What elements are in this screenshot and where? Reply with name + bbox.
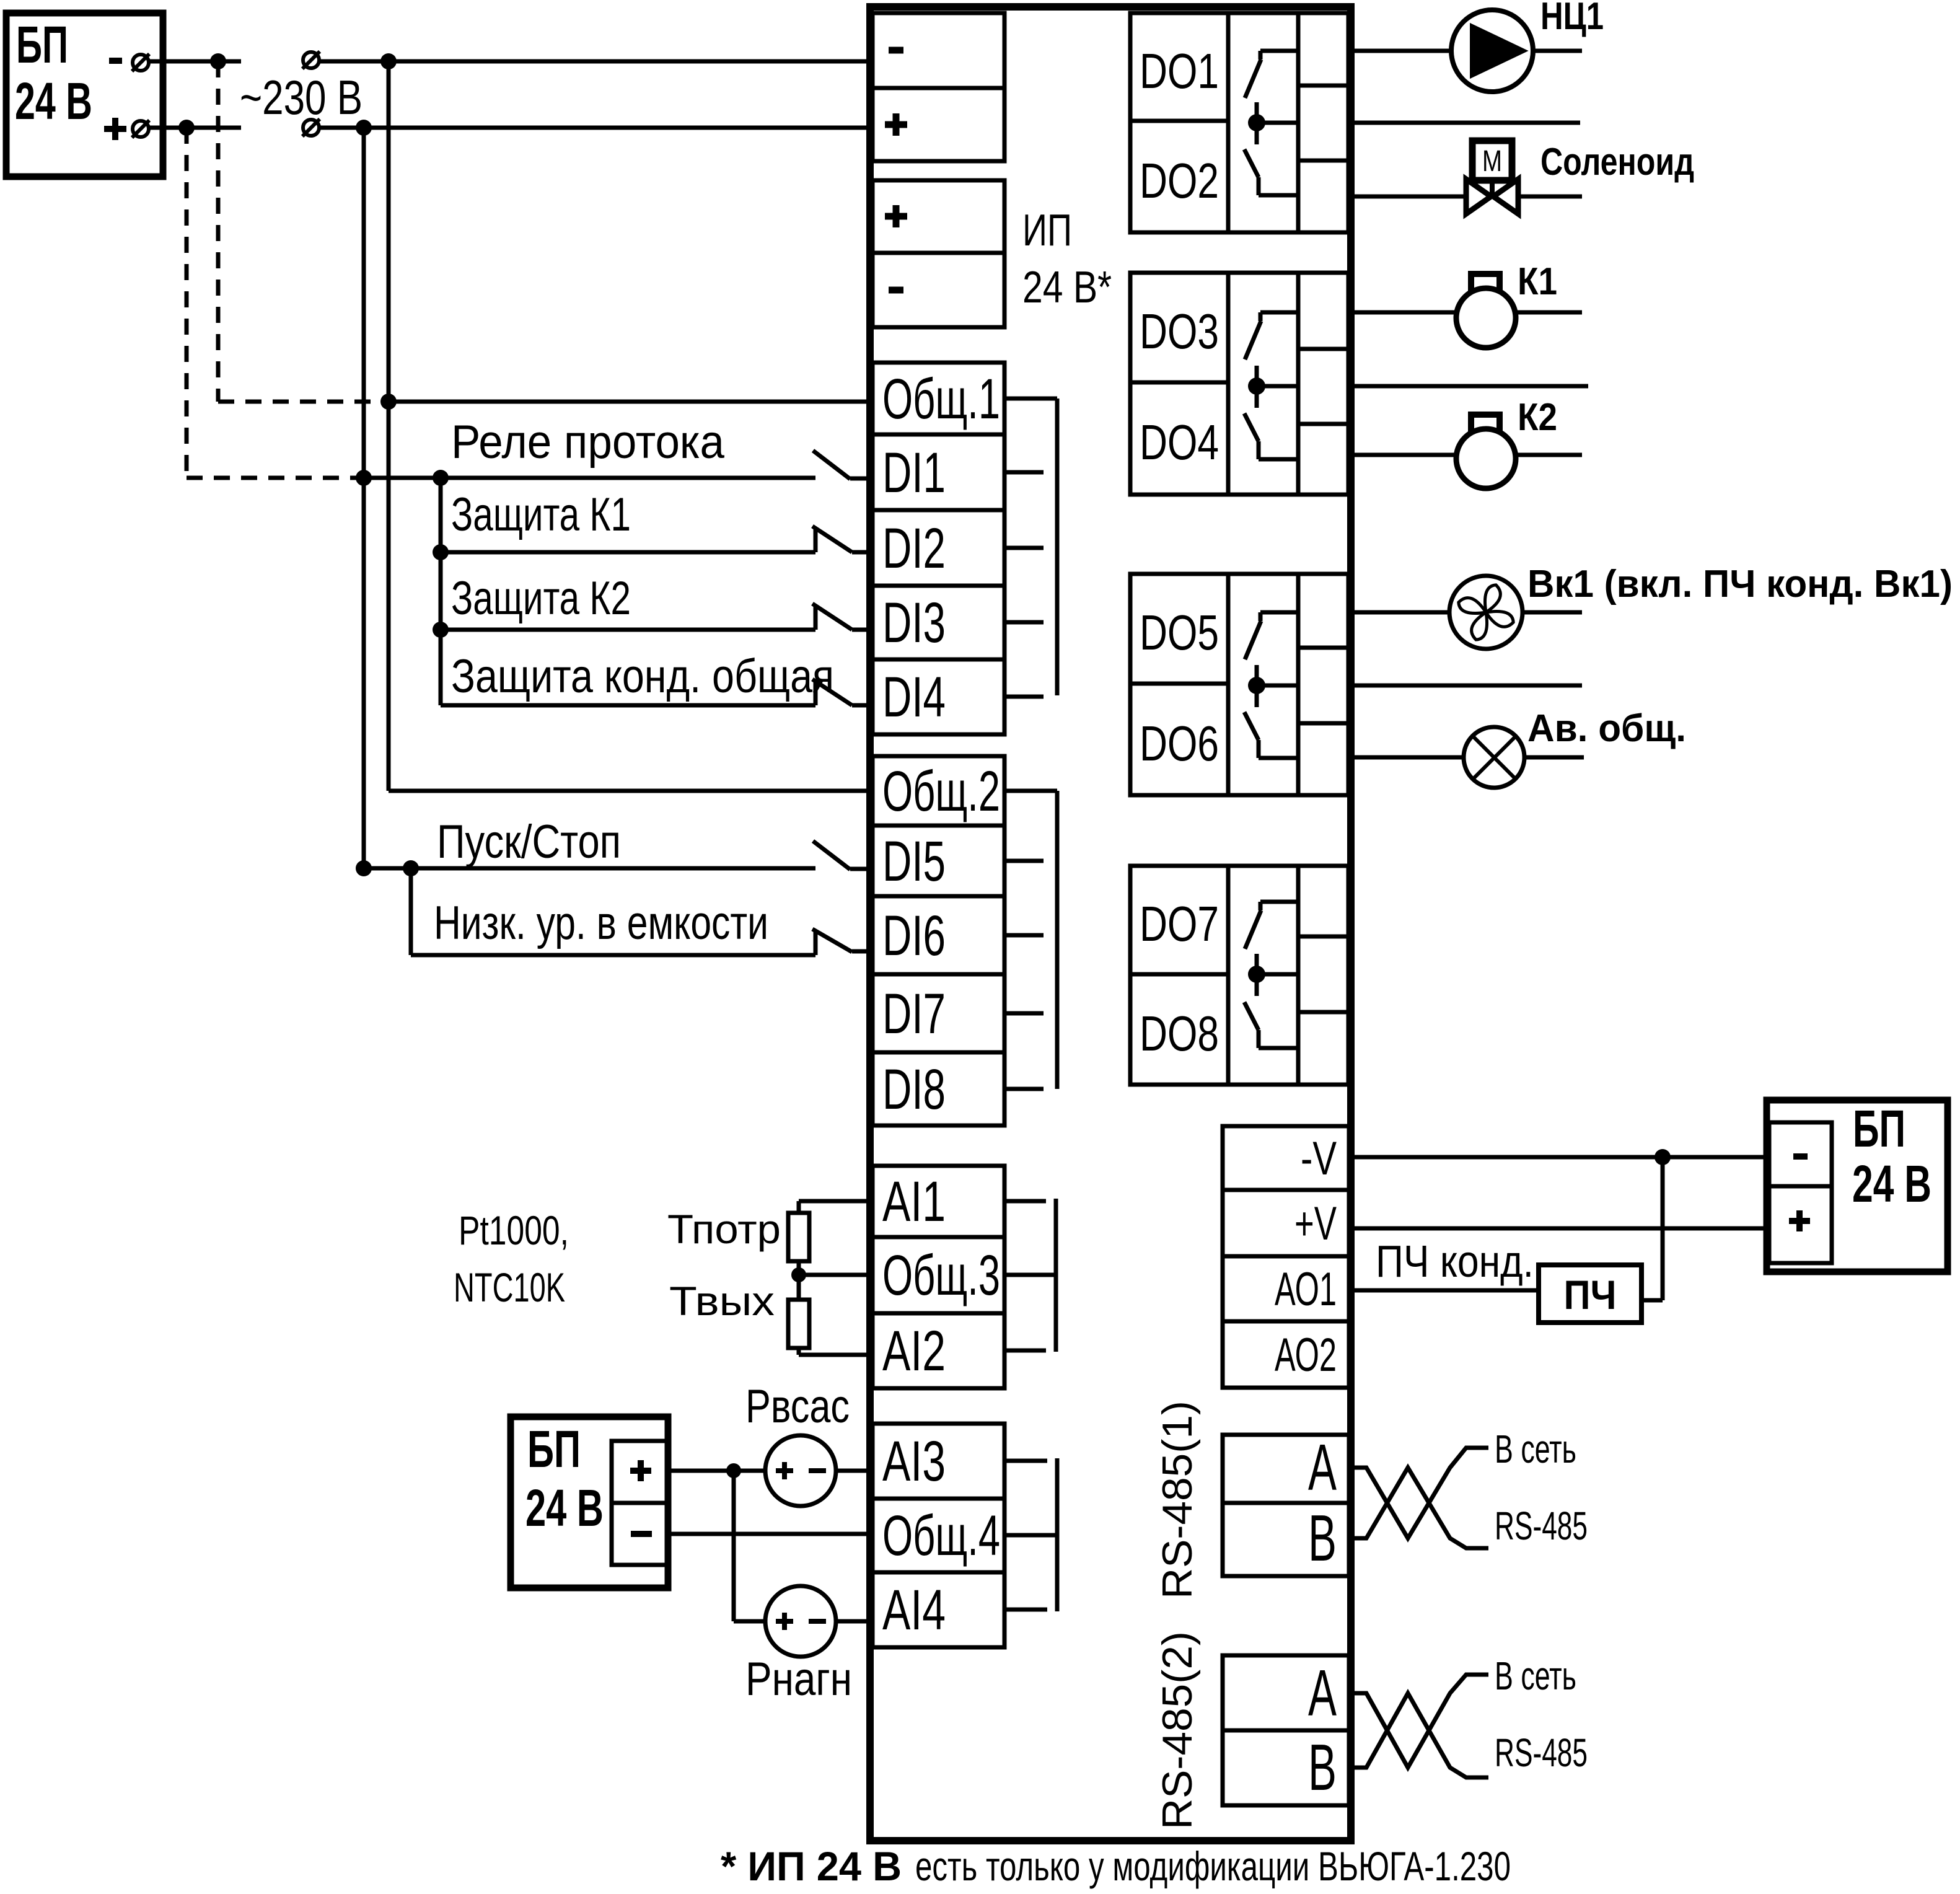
twisted pair RS-485(1) wire B — [1349, 1468, 1488, 1548]
wire branch V4 — [409, 868, 413, 955]
solenoid valve left triangle — [1466, 179, 1491, 214]
svg-text:М: М — [1482, 145, 1502, 178]
svg-text:* ИП 24 В: * ИП 24 В — [721, 1843, 902, 1889]
wire bus V1 — [387, 61, 391, 791]
wire 230V top to junction J3 — [319, 59, 389, 64]
twisted pair RS-485(2) wire A — [1349, 1675, 1488, 1768]
svg-text:NTC10K: NTC10K — [454, 1264, 565, 1310]
wire Общ.4 internal stub — [1004, 1533, 1057, 1538]
svg-text:Защита конд. общая: Защита конд. общая — [451, 650, 834, 703]
terminal screw BP1 plus — [133, 121, 149, 137]
power supply BP3 БП 24 В (bottom-left) — [511, 1417, 668, 1588]
wire to Общ.2 terminal — [389, 789, 870, 793]
terminal DI5 — [872, 826, 1004, 896]
divider -V/+V — [1223, 1188, 1349, 1192]
power supply BP1 БП 24 В (top-left) — [6, 13, 163, 177]
divider DO1/DO2 — [1130, 119, 1228, 123]
node J6 (DI1 tap) — [356, 470, 372, 486]
wire DI1 — [364, 476, 815, 480]
node J3 — [380, 53, 397, 69]
wire BP1 plus to junction — [149, 126, 187, 130]
svg-text:ИП: ИП — [1022, 206, 1072, 255]
svg-text:Пуск/Стоп: Пуск/Стоп — [437, 816, 621, 868]
node J13 (sensor common) — [791, 1267, 806, 1282]
wire S3 to DI3 terminal — [852, 628, 870, 632]
terminal AI1 — [872, 1166, 1004, 1237]
wire -V to БП minus — [1351, 1155, 1769, 1160]
wire AI2 internal stub — [1004, 1349, 1046, 1353]
minus sign in B1 — [809, 1468, 826, 1473]
svg-text:DO2: DO2 — [1140, 153, 1219, 208]
terminal screw BP1 minus — [133, 55, 149, 71]
terminal minus — [872, 13, 1004, 88]
AO terminal group box — [1223, 1126, 1349, 1388]
resistor R2 Твых — [788, 1300, 809, 1348]
svg-text:БП: БП — [16, 15, 68, 74]
wire DI4 internal stub — [1004, 695, 1044, 699]
RS-485(2) terminal box — [1223, 1655, 1349, 1805]
svg-text:Вк1 (вкл. ПЧ конд. Вк1): Вк1 (вкл. ПЧ конд. Вк1) — [1527, 563, 1953, 606]
relay group DO1/DO2 box — [1130, 13, 1348, 232]
svg-text:DO1: DO1 — [1140, 43, 1219, 99]
node J14 (branch to Рнагн) — [726, 1463, 741, 1478]
wire DI6 internal stub — [1004, 933, 1044, 938]
svg-text:В сеть: В сеть — [1495, 1654, 1576, 1698]
lamp HL1 Ав. общ. (circle) — [1464, 727, 1524, 788]
bell H2 К2 (circle) — [1456, 429, 1516, 488]
svg-text:ПЧ: ПЧ — [1564, 1272, 1617, 1318]
svg-text:А: А — [1308, 1657, 1337, 1730]
terminal screw N (~230V bottom) — [303, 120, 319, 136]
svg-text:DI5: DI5 — [882, 830, 946, 893]
wire DO2 to solenoid — [1351, 195, 1466, 199]
svg-text:DI8: DI8 — [882, 1058, 946, 1121]
terminal DI2 — [872, 510, 1004, 586]
contact cell divider 1 — [1298, 646, 1348, 650]
svg-text:Общ.1: Общ.1 — [882, 368, 1000, 431]
svg-text:Ав. общ.: Ав. общ. — [1527, 707, 1686, 750]
contact cell divider 2 — [1298, 1010, 1348, 1015]
minus sign in B2 — [809, 1619, 826, 1624]
svg-text:DI1: DI1 — [882, 441, 946, 504]
contact cell divider 2 — [1298, 422, 1348, 426]
wire DO4 to bell К2 — [1351, 453, 1457, 457]
wire DI8 internal stub — [1004, 1087, 1044, 1091]
node J9 — [433, 544, 449, 560]
wire DI2 internal stub — [1004, 546, 1044, 550]
svg-text:DI3: DI3 — [882, 591, 946, 654]
wire R1 to R2 — [797, 1261, 801, 1300]
svg-text:24 В: 24 В — [15, 72, 92, 130]
terminal Общ.2 — [872, 756, 1004, 826]
switch S4 notch — [814, 682, 818, 705]
svg-text:24 В: 24 В — [525, 1479, 604, 1537]
wire to resistor R1 — [797, 1201, 801, 1213]
frequency drive ПЧ box — [1539, 1265, 1641, 1323]
terminal DI6 — [872, 896, 1004, 974]
wire plus stub end — [187, 126, 241, 130]
dashed wire from plus down — [185, 128, 189, 478]
divider A/B RS-485(2) — [1223, 1729, 1349, 1733]
twisted pair RS-485(1) wire A — [1349, 1448, 1488, 1538]
divider +V/AO1 — [1223, 1254, 1349, 1259]
divider DO3/DO4 — [1130, 381, 1228, 385]
wire branch bus V3 — [439, 478, 443, 705]
svg-text:Твых: Твых — [669, 1278, 775, 1324]
svg-text:AI2: AI2 — [882, 1319, 946, 1383]
svg-text:-V: -V — [1301, 1132, 1337, 1185]
wire bus V2 — [362, 128, 366, 868]
svg-text:DO7: DO7 — [1140, 896, 1219, 951]
node J11 (branch to DI6) — [403, 860, 419, 876]
wire DO3 to bell К1 — [1351, 311, 1457, 315]
terminal ip minus — [872, 253, 1004, 327]
svg-text:AI4: AI4 — [882, 1579, 946, 1642]
wire BP3 minus to Общ.4 — [668, 1532, 870, 1536]
wire BP3 plus to Рвсас — [668, 1469, 765, 1473]
wire to controller terminal plus — [364, 126, 870, 130]
node J10 — [433, 622, 449, 638]
terminal ip plus — [872, 180, 1004, 253]
wire +V to БП plus — [1351, 1227, 1769, 1231]
wire DI6 — [411, 953, 815, 958]
svg-text:Соленоид: Соленоид — [1540, 141, 1694, 183]
lamp HL1 cross 2 — [1473, 736, 1516, 779]
label + (BP2) — [1789, 1218, 1810, 1224]
label + (BP3) — [630, 1468, 651, 1474]
switch S3 blade (Защита К2) — [812, 604, 852, 630]
divider DO7/DO8 — [1130, 972, 1228, 977]
svg-text:DO4: DO4 — [1140, 415, 1219, 470]
divider A/B RS-485(1) — [1223, 1501, 1349, 1505]
terminal Общ.3 — [872, 1237, 1004, 1313]
wire Рнагн to AI4 — [836, 1619, 870, 1624]
svg-text:К2: К2 — [1518, 396, 1557, 439]
wire rail common 2 — [1055, 791, 1060, 1089]
wire S1 to DI1 terminal — [850, 477, 870, 481]
svg-text:Общ.4: Общ.4 — [882, 1504, 1000, 1567]
contact cell divider 2 — [1298, 721, 1348, 726]
svg-text:RS-485(1): RS-485(1) — [1154, 1401, 1201, 1599]
terminal DI3 — [872, 586, 1004, 659]
wire Общ.3 internal stub — [1004, 1273, 1056, 1277]
svg-text:~230 В: ~230 В — [240, 70, 363, 125]
wire AI2 — [799, 1353, 870, 1357]
svg-text:Реле протока: Реле протока — [451, 416, 725, 469]
wire DO3/DO4 common out — [1351, 384, 1588, 389]
wire DI7 internal stub — [1004, 1011, 1044, 1016]
svg-text:DO8: DO8 — [1140, 1006, 1219, 1061]
switch S5 blade (Пуск/Стоп) — [813, 841, 850, 870]
wire to Общ.1 terminal — [389, 400, 870, 404]
svg-text:RS-485: RS-485 — [1495, 1504, 1588, 1548]
wire DI5 — [364, 866, 815, 871]
svg-text:AI3: AI3 — [882, 1430, 946, 1493]
node J2 (plus dashed branch) — [178, 120, 195, 136]
plus sign in B1 — [776, 1468, 793, 1473]
wire DO6 to lamp Ав. общ. — [1351, 755, 1464, 760]
solenoid stem — [1490, 180, 1495, 196]
svg-text:Рвсас: Рвсас — [745, 1380, 850, 1433]
wire DI2 — [441, 550, 815, 555]
pump M1 НЦ1 (circle) — [1451, 10, 1533, 92]
contact cell divider 1 — [1298, 347, 1348, 351]
divider DO5/DO6 — [1130, 682, 1228, 686]
wire to controller terminal minus — [389, 59, 870, 64]
node J7 (DI5 tap) — [356, 860, 372, 876]
node J1 (minus dashed branch) — [210, 53, 226, 69]
svg-text:БП: БП — [527, 1420, 581, 1478]
terminal BP2 minus cell — [1769, 1122, 1832, 1186]
controller U1 outer box — [870, 7, 1351, 1841]
svg-text:БП: БП — [1853, 1099, 1905, 1158]
wire minus stub end — [218, 59, 241, 64]
terminal BP2 plus cell — [1769, 1186, 1832, 1263]
svg-text:В: В — [1308, 1502, 1337, 1575]
svg-text:Низк. ур. в емкости: Низк. ур. в емкости — [434, 897, 768, 949]
wire DO5/DO6 common out — [1351, 684, 1582, 688]
wire bell К1 out — [1514, 311, 1582, 315]
dashed wire to Общ.1 node — [218, 400, 385, 404]
label - (BP2) — [1793, 1153, 1808, 1160]
power supply BP2 БП 24 В (right) — [1767, 1100, 1948, 1272]
wire AI3 internal stub — [1004, 1459, 1047, 1463]
terminal DI1 — [872, 434, 1004, 510]
divider AO1/AO2 — [1223, 1319, 1349, 1324]
wire S5 to DI5 terminal — [850, 867, 870, 871]
dashed wire from minus down — [216, 61, 221, 402]
terminal screw L (~230V top) — [303, 52, 319, 68]
node J5 (Общ.1 tap) — [380, 394, 397, 410]
svg-text:Рнагн: Рнагн — [745, 1653, 852, 1706]
wire S4 to DI4 terminal — [852, 703, 870, 708]
wire lamp out — [1524, 755, 1584, 760]
resistor R1 Тпотр — [788, 1213, 809, 1261]
svg-text:есть только у модификации ВЬЮГ: есть только у модификации ВЬЮГА-1.230 — [915, 1843, 1511, 1889]
terminal plus — [872, 88, 1004, 161]
solenoid Y1 actuator box — [1472, 141, 1512, 180]
wire DI3 internal stub — [1004, 620, 1044, 625]
pump M1 triangle — [1471, 25, 1526, 77]
wire Общ.1 internal stub — [1004, 397, 1057, 401]
label - (BP1 minus) — [109, 58, 122, 64]
wire fan Вк1 out — [1523, 610, 1582, 615]
svg-text:АО1: АО1 — [1275, 1263, 1337, 1316]
terminal DI7 — [872, 974, 1004, 1052]
wire Рвсас to AI3 — [836, 1469, 870, 1473]
terminal Общ.4 — [872, 1499, 1004, 1572]
wire rail common 4 — [1055, 1458, 1060, 1611]
svg-text:DO6: DO6 — [1140, 716, 1219, 771]
label − (BP3) — [631, 1531, 652, 1537]
sensor B2 Рнагн (circle) — [765, 1586, 836, 1657]
terminal Общ.1 — [872, 363, 1004, 434]
relay contact DO7/DO8 — [1260, 900, 1298, 904]
svg-text:DI2: DI2 — [882, 517, 946, 580]
svg-text:24 В*: 24 В* — [1022, 263, 1112, 312]
svg-text:АО2: АО2 — [1275, 1329, 1337, 1381]
svg-text:AI1: AI1 — [882, 1170, 946, 1233]
svg-text:+V: +V — [1294, 1197, 1337, 1250]
fan M2 blades — [1449, 575, 1523, 650]
wire Общ.2 internal stub — [1004, 789, 1057, 793]
terminal AI2 — [872, 1313, 1004, 1388]
relay group DO5/DO6 box — [1130, 574, 1348, 795]
wire 230V bottom to junction J4 — [319, 126, 364, 130]
wire rail common 1 — [1055, 399, 1060, 695]
node J8 (branch to DI2-DI4) — [433, 470, 449, 486]
wire ПЧ link vertical — [1661, 1157, 1665, 1300]
switch S6 notch — [814, 932, 818, 955]
wire DI3 — [441, 628, 815, 632]
switch S3 notch — [814, 607, 818, 630]
wire BP1 minus to junction — [149, 59, 218, 64]
wire DI1 internal stub — [1004, 470, 1044, 475]
wire to Общ.3 — [799, 1273, 870, 1277]
sensor B1 Рвсас (circle) — [765, 1435, 836, 1506]
svg-text:24 В: 24 В — [1852, 1155, 1931, 1213]
contact cell divider 2 — [1298, 159, 1348, 163]
wire AI4 internal stub — [1004, 1608, 1047, 1612]
wire rail common 3 — [1054, 1199, 1058, 1352]
svg-text:В сеть: В сеть — [1495, 1427, 1576, 1471]
svg-text:DI6: DI6 — [882, 904, 946, 967]
contact cell divider 1 — [1298, 84, 1348, 88]
svg-text:Защита К2: Защита К2 — [451, 572, 631, 625]
svg-text:А: А — [1308, 1431, 1337, 1504]
wire S2 to DI2 terminal — [852, 550, 870, 555]
svg-text:DI4: DI4 — [882, 666, 946, 729]
wire R2 down — [797, 1348, 801, 1355]
switch S2 blade (Защита К1) — [812, 526, 852, 552]
svg-text:Общ.3: Общ.3 — [882, 1244, 1000, 1307]
twisted pair RS-485(2) wire B — [1349, 1693, 1488, 1777]
bell H2 cap — [1471, 415, 1500, 432]
RS-485(1) terminal box — [1223, 1435, 1349, 1576]
relay group DO3/DO4 box — [1130, 273, 1348, 495]
fan M2 Вк1 (circle) — [1449, 576, 1523, 649]
switch S1 blade (Реле протока) — [813, 451, 850, 479]
wire DI4 — [441, 703, 815, 708]
terminal AI4 — [872, 1572, 1004, 1647]
terminal DI8 — [872, 1052, 1004, 1125]
svg-text:DO3: DO3 — [1140, 304, 1219, 359]
relay contact DO1/DO2 — [1260, 49, 1298, 53]
lamp HL1 cross 1 — [1473, 736, 1516, 779]
wire branch down — [732, 1471, 736, 1621]
bell H1 cap — [1471, 274, 1500, 291]
relay contact DO3/DO4 — [1260, 311, 1298, 315]
wire S6 to DI6 terminal — [852, 949, 870, 954]
svg-text:ПЧ конд.: ПЧ конд. — [1376, 1237, 1534, 1287]
svg-text:RS-485: RS-485 — [1495, 1730, 1588, 1775]
wire to Рнагн — [734, 1619, 765, 1624]
svg-text:В: В — [1308, 1731, 1337, 1804]
relay contact DO5/DO6 — [1260, 610, 1298, 615]
wire pump НЦ1 out — [1533, 49, 1582, 53]
svg-text:DI7: DI7 — [882, 982, 946, 1046]
svg-text:К1: К1 — [1518, 260, 1557, 303]
svg-text:Общ.2: Общ.2 — [882, 760, 1000, 823]
wire DO5 to fan Вк1 — [1351, 610, 1449, 615]
wire AI1 internal stub — [1004, 1199, 1046, 1204]
wire DI5 internal stub — [1004, 859, 1044, 863]
svg-text:Тпотр: Тпотр — [667, 1206, 781, 1252]
terminal BP3 minus cell — [612, 1503, 668, 1565]
switch S2 notch — [814, 529, 818, 552]
terminal AI3 — [872, 1424, 1004, 1499]
wire solenoid out — [1518, 195, 1582, 199]
plus sign in B2 — [776, 1619, 793, 1624]
terminal BP3 plus cell — [612, 1441, 668, 1503]
svg-text:DO5: DO5 — [1140, 605, 1219, 660]
dashed wire to DI1 node — [187, 476, 358, 480]
wire DO1/DO2 common out — [1351, 121, 1580, 125]
node J12 (ПЧ minus tap) — [1655, 1149, 1671, 1165]
node J4 — [356, 120, 372, 136]
terminal DI4 — [872, 659, 1004, 734]
svg-text:Защита К1: Защита К1 — [451, 488, 631, 541]
wire DO1 to pump НЦ1 — [1351, 49, 1451, 53]
wire ПЧ link horizontal — [1641, 1298, 1663, 1303]
wire АО1 to ПЧ — [1351, 1288, 1539, 1293]
wire AI1 — [799, 1199, 870, 1204]
wire bell К2 out — [1514, 453, 1582, 457]
svg-text:RS-485(2): RS-485(2) — [1154, 1631, 1201, 1830]
switch S6 blade (Низк. ур. в емкости) — [812, 929, 852, 952]
label + (BP1 plus) — [104, 126, 126, 132]
relay group DO7/DO8 box — [1130, 866, 1348, 1085]
switch S4 blade (Защита конд. общая) — [812, 679, 852, 705]
svg-text:Pt1000,: Pt1000, — [459, 1207, 569, 1253]
contact cell divider 1 — [1298, 935, 1348, 939]
bell H1 К1 (circle) — [1456, 288, 1516, 348]
solenoid valve right triangle — [1493, 179, 1518, 214]
svg-text:НЦ1: НЦ1 — [1540, 0, 1604, 38]
